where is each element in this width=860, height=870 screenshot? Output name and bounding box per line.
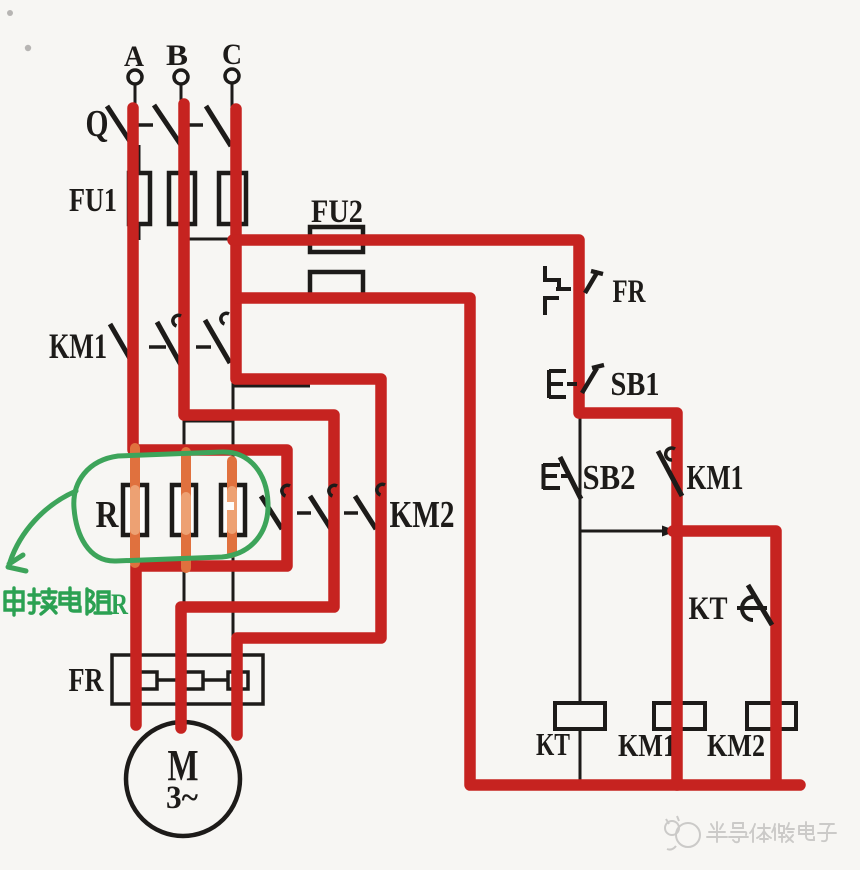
coil KM2 (contactor) [707, 703, 796, 763]
resistor R2 trace [181, 452, 191, 568]
svg-text:KM1: KM1 [618, 727, 676, 763]
resistor bank R (3 starting resistors) [96, 485, 246, 536]
svg-text:C: C [222, 38, 242, 71]
svg-text:FU2: FU2 [311, 194, 363, 230]
svg-text:KT: KT [689, 591, 728, 627]
阻 [87, 589, 111, 614]
wire FU2 feed (from B/C to control) [184, 238, 580, 241]
KT time-delay contact (delayed closing) [689, 585, 773, 627]
thermal overload relay FR heaters [69, 655, 264, 704]
resistor R1 trace [130, 448, 140, 563]
svg-text:FR: FR [69, 662, 104, 699]
FR NC contact (control) [545, 266, 646, 315]
coil KM1 (contactor) [618, 703, 705, 763]
svg-text:A: A [124, 40, 144, 73]
KM1 auxiliary contact (seal-in) [658, 448, 744, 497]
svg-text:SB1: SB1 [611, 366, 660, 403]
junction wire with arrow (node below SB2) [580, 526, 677, 537]
svg-text:KM1: KM1 [49, 326, 107, 366]
node A (phase terminal) [124, 40, 144, 108]
resistor R3 trace [226, 461, 234, 553]
coil KT (time relay) [536, 703, 605, 762]
wire bypass branch C (above R, black) [233, 386, 381, 638]
wire KM2 coil branch (under red) [775, 531, 778, 785]
faint scan smudges top-left [7, 10, 31, 51]
green note text 串接电阻R [5, 588, 128, 621]
svg-text:B: B [166, 39, 188, 72]
子 [818, 824, 836, 841]
node C (phase terminal) [222, 38, 242, 107]
svg-text:Q: Q [86, 103, 109, 145]
接 [29, 589, 56, 614]
motor M 3~ [126, 722, 240, 836]
red trace control feed through FU2 top, FR, SB1, KM1 branch [233, 240, 677, 785]
red trace phase A (through R1) [133, 108, 287, 725]
svg-text:3~: 3~ [166, 780, 198, 816]
微 [772, 823, 794, 842]
KM1 main contact hooks [173, 313, 229, 326]
contactor KM2 main contacts (resistor bypass) [261, 494, 455, 536]
svg-text:SB2: SB2 [583, 458, 636, 497]
体 [750, 824, 771, 842]
wire bottom control rail (black) [580, 784, 776, 787]
green arrow to note [8, 491, 76, 571]
watermark logo [665, 816, 700, 850]
svg-text:KM2: KM2 [707, 727, 765, 763]
电 [799, 822, 814, 840]
red trace KM2 coil branch [673, 531, 776, 783]
stop button SB1 (NC pushbutton) [549, 365, 660, 403]
电 [60, 588, 80, 611]
fuse FU2 (2 fuses) [310, 194, 363, 296]
fuse FU1 (3 fuses) [69, 173, 246, 224]
switch Q (3-pole isolator) [86, 103, 232, 146]
wire phase C main vertical [232, 107, 235, 722]
green highlight ellipse around resistors [74, 452, 268, 561]
wire bypass branch A (above R, black under red) [135, 452, 287, 566]
wire control return feed [233, 297, 470, 300]
start button SB2 (NO pushbutton) [543, 457, 636, 499]
半 [707, 822, 727, 842]
svg-text:KT: KT [536, 726, 570, 762]
svg-text:KM2: KM2 [390, 494, 455, 536]
wire KM1 coil branch (under red) [676, 413, 679, 785]
导 [729, 823, 748, 842]
wire KT coil to rail [579, 729, 582, 786]
svg-text:FU1: FU1 [69, 182, 117, 219]
wire phase A main vertical [134, 107, 137, 722]
node B (phase terminal) [166, 39, 188, 106]
wire phase B main vertical [183, 106, 186, 722]
串 [5, 588, 23, 615]
contactor KM1 main contacts [49, 320, 230, 366]
red trace phase B (through R2) [181, 104, 334, 728]
red trace return line through FU2 bottom and bottom rail [238, 298, 800, 785]
svg-text:R: R [111, 588, 128, 621]
svg-text:R: R [96, 494, 119, 536]
wire A stub at FU1 (visible beside red) [138, 145, 141, 240]
wire control branch vertical (under red) [579, 239, 582, 703]
KM2 main contact hooks [282, 484, 385, 496]
red trace phase C (through R3) [236, 109, 381, 735]
wire bypass branch B (above R, black) [181, 417, 334, 607]
svg-text:KM1: KM1 [687, 458, 744, 497]
watermark text 半导体微电子 [707, 822, 836, 842]
svg-text:FR: FR [613, 274, 647, 310]
